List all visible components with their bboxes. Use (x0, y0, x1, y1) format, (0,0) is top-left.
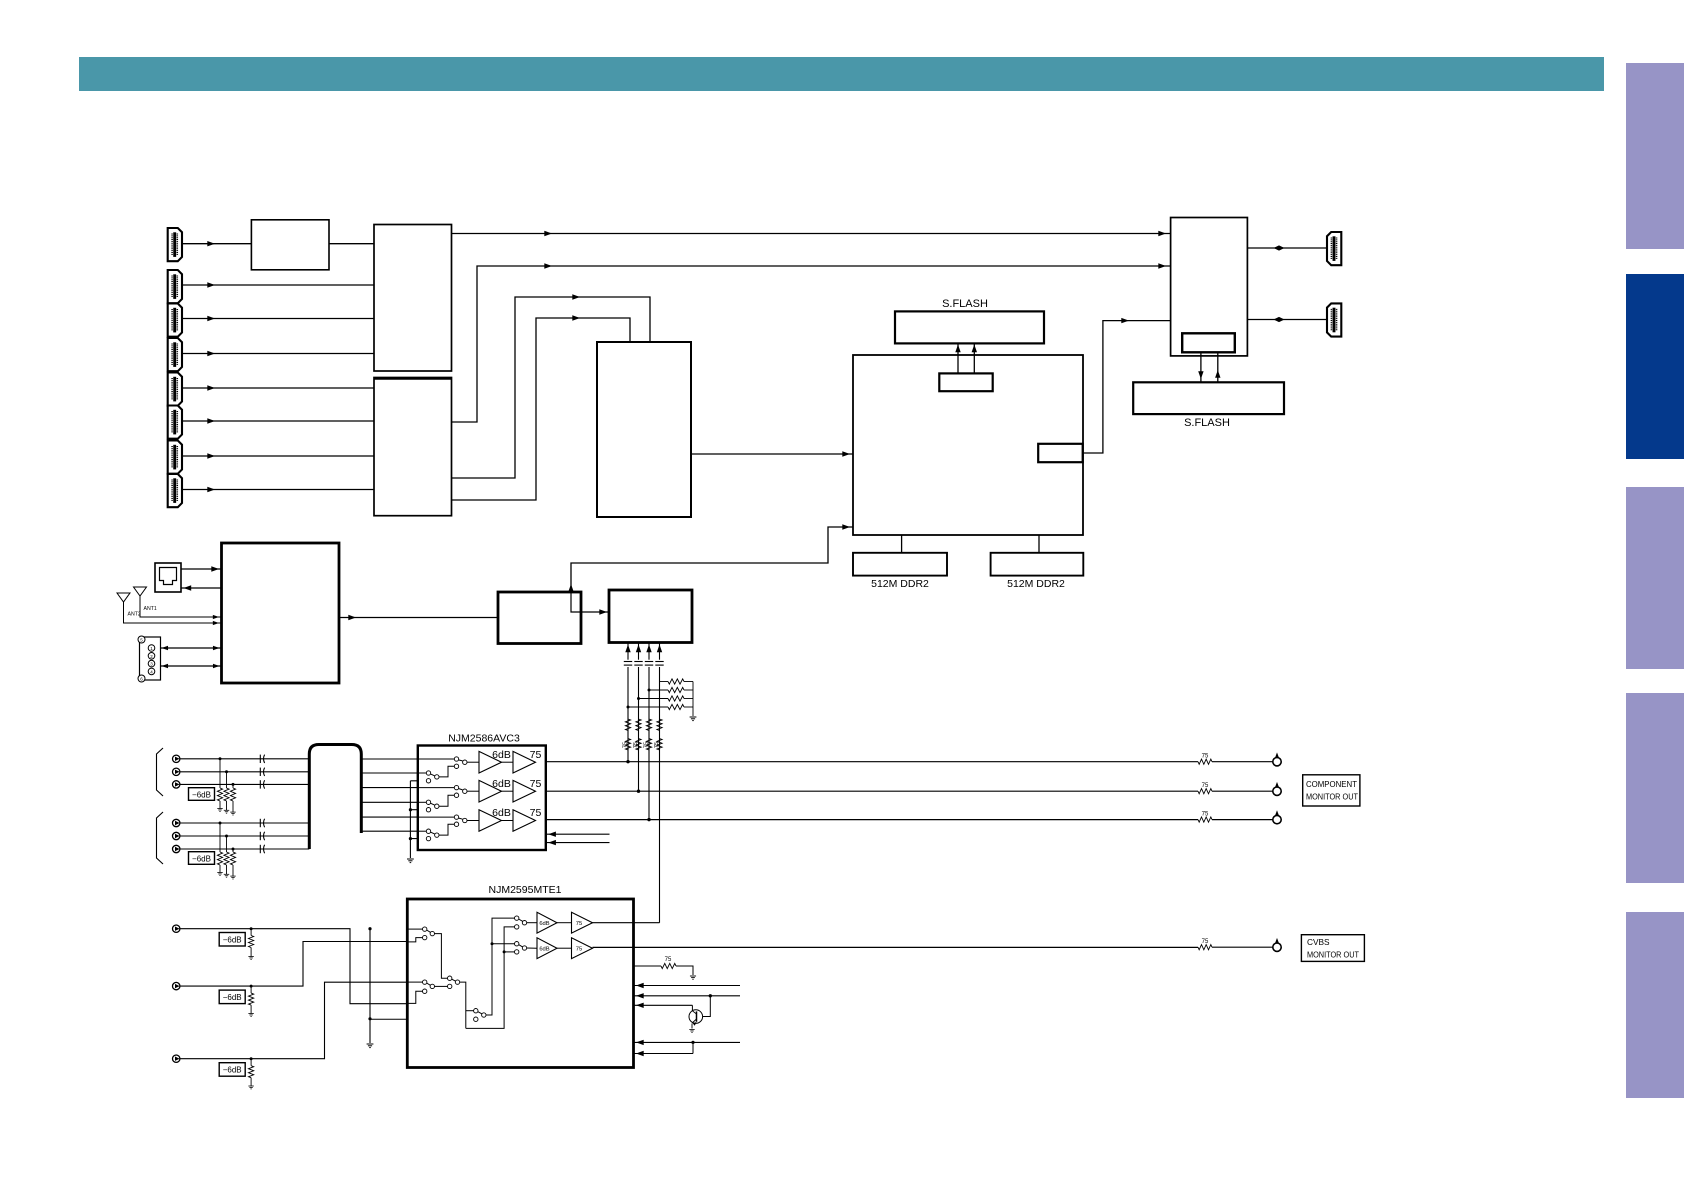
wire J2 to switch box U1 (182, 284, 374, 286)
CVBS tie line with ground (369, 929, 371, 1043)
wire U2 to receiver U3 (net L2) (452, 266, 1171, 422)
transistor Q1 (709, 994, 712, 997)
svg-text:6dB: 6dB (492, 807, 511, 819)
input selector bus (309, 745, 361, 850)
svg-text:75: 75 (623, 742, 629, 748)
connector J8 (HDMI input 8) (168, 474, 182, 507)
label -6dB CVBS 3 (219, 1063, 245, 1077)
flash interface sub-block (939, 373, 992, 391)
svg-text:MONITOR OUT: MONITOR OUT (1307, 950, 1359, 960)
U10 control input 2 (634, 995, 741, 997)
wire video out 4 from U8 (659, 643, 661, 660)
CVBS input line 2 (180, 942, 407, 987)
svg-text:−6dB: −6dB (192, 790, 211, 799)
component output line 2 (546, 790, 1198, 792)
svg-text:MONITOR OUT: MONITOR OUT (1306, 792, 1358, 802)
U10 output switch bank 1 (515, 916, 519, 920)
video amp NJM2586AVC3 U9 (418, 746, 546, 851)
header bar (79, 57, 1604, 91)
U10 output switch bank 2 (515, 942, 519, 946)
input bracket group 2 (157, 812, 164, 864)
HDMI switch U2 (374, 378, 452, 516)
output resistor 75 (component 3) (1198, 817, 1212, 822)
U10 input switch B2 (448, 976, 452, 980)
svg-text:NJM2595MTE1: NJM2595MTE1 (489, 884, 562, 896)
U9 channel 3 6dB amplifier (479, 810, 502, 832)
label -6dB CVBS 1 (219, 933, 245, 947)
CVBS output resistor 75 (1198, 945, 1212, 950)
U10 control input 1 (634, 985, 741, 987)
U10 CVBS 6dB amplifier 2 (537, 938, 557, 959)
CVBS attenuator resistor 2 (250, 985, 253, 988)
U10 control input 4 (634, 1041, 741, 1043)
CVBS output terminal (1273, 943, 1281, 951)
svg-text:CVBS: CVBS (1307, 937, 1330, 947)
label box COMPONENT MONITOR OUT (1303, 775, 1360, 806)
CVBS attenuator resistor 3 (250, 1057, 253, 1060)
wire amp1 output to U4 line (593, 922, 660, 924)
U10 CVBS 6dB amplifier 1 (537, 912, 557, 933)
wire J7 to switch box U2 (182, 455, 374, 457)
svg-text:−6dB: −6dB (223, 993, 242, 1002)
U9 channel 1 75 ohm driver (513, 751, 536, 773)
wire U4 to main IC U5 (691, 453, 853, 455)
component output terminal 1 (1273, 758, 1281, 766)
wire flash bus 2 (973, 343, 975, 373)
wire TU1 to demodulator U7 (339, 617, 498, 619)
U10 input switch B1 (407, 981, 422, 983)
side tab 2 (active) (1626, 274, 1684, 459)
svg-text:75: 75 (633, 742, 639, 748)
svg-text:S.FLASH: S.FLASH (942, 298, 988, 310)
output resistor 75 (component 1) (1198, 759, 1212, 764)
connector J6 (HDMI input 6) (168, 406, 182, 439)
CVBS input terminal 1 (173, 925, 180, 932)
U6 flash interface sub-block (1182, 333, 1235, 352)
component output terminal 2 (1273, 787, 1281, 795)
CVBS attenuator resistor 1 (250, 927, 253, 930)
CVBS input terminal 2 (173, 982, 180, 989)
wire J4 to switch box U1 (182, 353, 374, 355)
svg-text:ANT1: ANT1 (144, 606, 157, 612)
svg-text:75: 75 (530, 749, 542, 761)
wire J12 to TU1 bus 2 (161, 665, 222, 667)
wire J12 to TU1 bus 1 (161, 647, 222, 649)
svg-text:−6dB: −6dB (223, 1066, 242, 1075)
U9 channel 3 75 ohm driver (513, 810, 536, 832)
svg-text:−6dB: −6dB (192, 854, 211, 863)
video processor U4 (597, 342, 691, 517)
front-end IC U6 (1171, 218, 1248, 356)
video decoder U8 (609, 590, 692, 643)
input bracket group 1 (157, 748, 164, 796)
connector J10 (HDMI out 2) (1327, 303, 1341, 336)
wire U2 to processor U4 (net L3) (452, 297, 651, 478)
antenna ANT2 (117, 593, 130, 602)
wire J6 to switch box U2 (182, 420, 374, 422)
CVBS input line 1 (180, 929, 407, 1004)
wire U5 to front-end U6 (1083, 321, 1171, 453)
HDMI switch U1 (374, 225, 452, 372)
component input terminal group2 ch3 (173, 845, 180, 852)
connector J7 (HDMI input 7) (168, 441, 182, 474)
wire U7 to U5 (ts bus) (571, 527, 853, 592)
CVBS input line 3 (180, 982, 407, 1058)
wire TU1 to J11 (181, 587, 222, 589)
RJ45 jack J11 (155, 563, 181, 592)
demodulator U7 (498, 592, 581, 644)
svg-text:75: 75 (1202, 812, 1209, 818)
svg-text:6dB: 6dB (492, 778, 511, 790)
wire J5 to switch box U2 (182, 387, 374, 389)
bus output line 4 (361, 801, 418, 803)
component output terminal 3 (1273, 815, 1281, 823)
svg-text:75: 75 (530, 778, 542, 790)
U10 input switch A (407, 928, 422, 930)
wire U6 to HDMI output J9 (1247, 247, 1327, 249)
U10 sync output resistor 75 (634, 965, 662, 967)
serial flash IC1 (895, 311, 1044, 343)
wire U6 flash bus 1 (1200, 352, 1202, 382)
U10 control input 5 (634, 1053, 694, 1055)
bus output line 5 (361, 816, 418, 818)
attenuator resistors group1 (219, 759, 221, 788)
connector J1 (HDMI input 1) (168, 228, 182, 261)
connector J2 (HDMI input 2) (168, 270, 182, 303)
svg-text:75: 75 (1202, 939, 1209, 945)
U9 channel 1 input switch (418, 758, 455, 760)
U9 channel 2 75 ohm driver (513, 780, 536, 802)
svg-text:−6dB: −6dB (223, 936, 242, 945)
svg-text:NJM2586AVC3: NJM2586AVC3 (448, 733, 520, 745)
svg-text:COMPONENT: COMPONENT (1306, 779, 1357, 789)
label -6dB group2 (189, 852, 215, 865)
wire U6 to HDMI output J10 (1247, 319, 1327, 321)
svg-text:S.FLASH: S.FLASH (1184, 417, 1230, 429)
U9 channel 1 6dB amplifier (479, 751, 502, 773)
U10 riser 2 (466, 927, 515, 1029)
wire U6 flash bus 2 (1217, 352, 1219, 382)
termination resistor network R10-R13 (628, 706, 668, 708)
bus output line 2 (361, 772, 418, 774)
U9 channel 2 6dB amplifier (479, 780, 502, 802)
U10 riser 1 (486, 918, 515, 1015)
ground bus for R10-R13 (692, 682, 694, 717)
wire video out 2 from U8 (638, 643, 640, 660)
512M DDR2 memory #2 (991, 553, 1084, 576)
svg-text:6dB: 6dB (492, 749, 511, 761)
svg-text:ANT2: ANT2 (128, 612, 141, 618)
wire flash bus 1 (957, 343, 959, 373)
control connector J12 (140, 637, 161, 680)
UART sub-block on U5 (1038, 444, 1083, 462)
svg-text:75: 75 (576, 947, 582, 953)
svg-text:512M DDR2: 512M DDR2 (1007, 578, 1065, 590)
U10 75 ohm driver 1 (572, 912, 593, 933)
svg-text:75: 75 (1202, 783, 1209, 789)
video switch NJM2595MTE1 U10 (407, 899, 633, 1068)
svg-text:6dB: 6dB (539, 921, 549, 927)
svg-text:75: 75 (576, 921, 582, 927)
component input terminal group2 ch2 (173, 832, 180, 839)
wire U1 to receiver U3 (net L1) (452, 233, 1171, 235)
IF box (small top-left block) (251, 220, 329, 270)
component output line 3 (546, 819, 1198, 821)
component input terminal group1 ch2 (173, 768, 180, 775)
label -6dB group1 (189, 788, 215, 801)
connector J5 (HDMI input 5) (168, 373, 182, 406)
antenna ANT1 (134, 587, 147, 596)
connector J3 (HDMI input 3) (168, 304, 182, 337)
side tab 5 (1626, 912, 1684, 1098)
U9 channel 2 input switch (418, 787, 455, 789)
connector J9 (HDMI out 1) (1327, 232, 1341, 265)
attenuator resistors group2 (219, 823, 221, 852)
connector J4 (HDMI input 4) (168, 338, 182, 371)
wire video out 3 from U8 (648, 643, 650, 660)
512M DDR2 memory #1 (853, 553, 947, 576)
select tie line with ground (409, 781, 411, 858)
svg-text:75: 75 (1202, 754, 1209, 760)
bus output line 6 (361, 830, 418, 832)
side tab 4 (1626, 693, 1684, 883)
wire J3 to switch box U1 (182, 318, 374, 320)
svg-text:512M DDR2: 512M DDR2 (871, 578, 929, 590)
wire U2 to processor U4 (net L4) (452, 318, 631, 500)
svg-text:75: 75 (654, 742, 660, 748)
wire U7 to video decoder U8 (581, 611, 609, 613)
wire video out 1 from U8 (627, 643, 629, 660)
side tab 1 (1626, 63, 1684, 249)
svg-text:75: 75 (530, 807, 542, 819)
tuner module TU1 (222, 543, 340, 683)
label box CVBS MONITOR OUT (1301, 935, 1364, 962)
component input terminal group2 ch1 (173, 819, 180, 826)
wire U5 to DDR2 #2 (1038, 535, 1040, 553)
wire J8 to switch box U2 (182, 489, 374, 491)
U9 control inputs (546, 833, 610, 835)
wire J1 to IF box (182, 243, 251, 245)
U10 input switch C (474, 1009, 478, 1013)
main IC U5 (SoC) (853, 355, 1083, 535)
wire IF box to U1 (329, 243, 374, 245)
U10 control input 3 (634, 1004, 693, 1006)
svg-text:6dB: 6dB (539, 947, 549, 953)
series resistors R14-R17 (625, 719, 630, 731)
component output line 1 (546, 761, 1198, 763)
U10 75 ohm driver 2 (572, 938, 593, 959)
svg-text:75: 75 (665, 957, 672, 963)
CVBS output line (593, 946, 1199, 948)
wire U5 to DDR2 #1 (901, 535, 903, 553)
output resistor 75 (component 2) (1198, 789, 1212, 794)
component input terminal group1 ch1 (173, 755, 180, 762)
U9 channel 3 input switch (418, 816, 455, 818)
serial flash IC2 (1133, 382, 1284, 414)
wire J11 to TU1 (181, 568, 222, 570)
bus output line 1 (361, 758, 418, 760)
CVBS input terminal 3 (173, 1055, 180, 1062)
svg-text:75: 75 (644, 742, 650, 748)
bus output line 3 (361, 787, 418, 789)
label -6dB CVBS 2 (219, 990, 245, 1004)
side tab 3 (1626, 487, 1684, 669)
component input terminal group1 ch3 (173, 781, 180, 788)
